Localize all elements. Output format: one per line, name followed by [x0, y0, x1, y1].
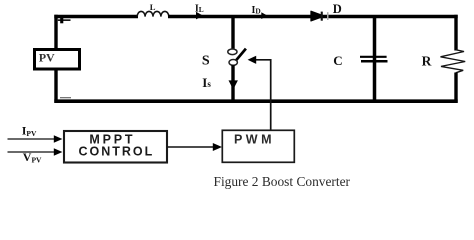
svg-text:PWM: PWM — [234, 133, 275, 147]
capacitor C bottom plate — [361, 60, 388, 63]
svg-text:C: C — [333, 53, 342, 68]
svg-text:PV: PV — [39, 50, 55, 64]
PWM block — [222, 130, 294, 162]
current arrow IL — [196, 12, 203, 20]
svg-text:CONTROL: CONTROL — [78, 145, 154, 159]
svg-text:Figure 2 Boost Converter: Figure 2 Boost Converter — [214, 174, 351, 189]
svg-text:R: R — [422, 53, 432, 68]
resistor R zigzag — [441, 50, 466, 73]
arrow MPPT to PWM — [168, 146, 215, 148]
switch S blade — [234, 49, 246, 63]
current arrow Is (down) — [229, 80, 238, 89]
svg-text:IL: IL — [195, 3, 204, 14]
current arrow ID — [261, 12, 267, 19]
svg-text:L: L — [150, 2, 156, 12]
inductor L coil — [137, 11, 169, 16]
diode D cathode bar — [321, 12, 323, 21]
wire switch branch lower — [231, 65, 234, 102]
gate wire vertical to PWM — [270, 59, 272, 130]
plus sign terminal — [60, 17, 63, 24]
wire top middle segment — [168, 15, 458, 18]
svg-text:ID: ID — [252, 5, 261, 16]
wire top-left segment — [54, 15, 138, 18]
diode D triangle — [311, 11, 321, 21]
capacitor C top plate — [360, 56, 387, 58]
input arrow IPV — [8, 138, 56, 140]
wire left vertical — [54, 15, 57, 103]
minus terminal mark — [60, 97, 71, 98]
MPPT control block — [64, 131, 167, 163]
input arrow VPV — [8, 151, 56, 153]
wire bottom — [54, 99, 457, 103]
gate arrow to switch — [253, 59, 271, 61]
wire capacitor branch — [373, 15, 377, 103]
svg-text:S: S — [202, 54, 210, 69]
svg-text:Is: Is — [202, 75, 211, 90]
diode faint scan bar — [327, 12, 329, 20]
switch S bottom contact circle — [229, 60, 237, 66]
wire switch branch upper — [231, 15, 234, 49]
svg-text:D: D — [333, 2, 342, 16]
wire right vertical lower — [454, 73, 457, 103]
switch S top contact circle — [228, 49, 237, 55]
wire right vertical upper — [454, 15, 457, 51]
svg-text:IPV: IPV — [22, 124, 37, 139]
PV source box — [35, 50, 80, 70]
